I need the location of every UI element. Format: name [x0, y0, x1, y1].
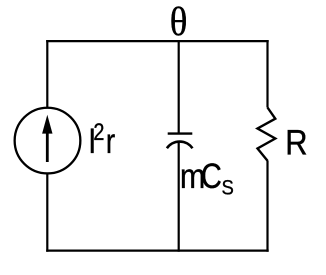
svg-text:θ: θ [170, 1, 188, 45]
wire: middle vertical lower (capacitor to bottom wire) [178, 142, 180, 252]
svg-text:2: 2 [93, 118, 104, 145]
svg-text:S: S [222, 176, 234, 200]
current source arrow head [42, 115, 52, 134]
resistor R zigzag [258, 108, 276, 161]
wire: right vertical upper (top wire to resistor) [266, 40, 268, 108]
svg-text:R: R [285, 124, 307, 163]
current source I2r: circle [15, 108, 81, 174]
wire: middle vertical upper (top wire to capacitor) [178, 40, 180, 134]
wire: top horizontal (node theta net) [46, 40, 269, 42]
svg-text:r: r [106, 121, 116, 161]
capacitor mCs: top plate [168, 132, 193, 134]
capacitor mCs: curved bottom plate [167, 142, 193, 149]
wire: left vertical lower (current source to bottom wire) [46, 174, 48, 252]
wire: bottom horizontal [46, 250, 269, 252]
current source arrow shaft [46, 131, 49, 162]
svg-text:C: C [201, 156, 222, 195]
wire: left vertical upper (top wire to current source) [46, 40, 48, 107]
wire: right vertical lower (resistor to bottom wire) [266, 161, 268, 252]
